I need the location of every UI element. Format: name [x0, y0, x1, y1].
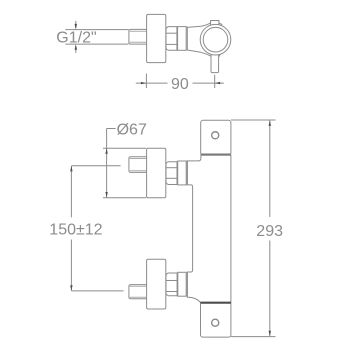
svg-text:Ø67: Ø67: [117, 121, 147, 138]
svg-text:90: 90: [171, 76, 189, 93]
svg-text:150±12: 150±12: [49, 222, 102, 239]
svg-text:G1/2": G1/2": [56, 30, 96, 47]
svg-text:293: 293: [256, 223, 283, 240]
